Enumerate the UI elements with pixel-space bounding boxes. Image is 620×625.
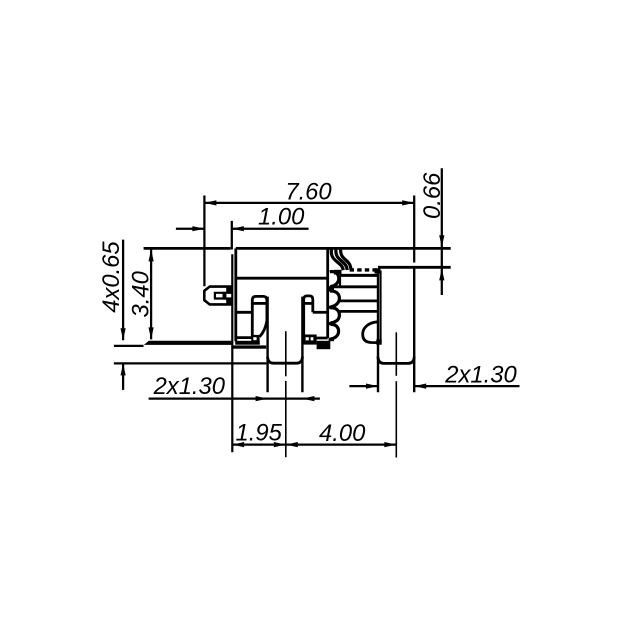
shield bend wavy curls — [331, 250, 351, 271]
dash-leg junction fill — [375, 268, 381, 273]
dim 1.00 line + tail — [232, 228, 309, 230]
dim 1.95 / 4.00 shared line — [232, 443, 396, 445]
latch black top-right — [226, 287, 232, 293]
dimension texts — [98, 172, 518, 447]
svg-text:1.95: 1.95 — [236, 419, 283, 446]
arrowheads — [121, 200, 445, 447]
right contact post cap — [304, 296, 313, 335]
4x0.65 upper arrow (down) — [121, 328, 126, 340]
body interior horizontal line left — [236, 311, 253, 314]
metal section line y301 — [338, 299, 378, 302]
extension line top-left (3.40 upper ref) — [144, 247, 231, 250]
left contact post cap — [252, 296, 267, 336]
right lead bottom line — [378, 266, 451, 269]
dim 4x0.65 extension upper — [114, 345, 144, 347]
metal section line y311 — [338, 310, 378, 313]
1.00 right arrow — [232, 226, 244, 231]
right contact post cap underline — [304, 302, 313, 305]
right contact crimp block — [303, 335, 317, 345]
right hold-down leg inner double line — [380, 271, 382, 343]
svg-text:2x1.30: 2x1.30 — [153, 373, 226, 400]
2x1.30 BR right arrow (left-pointing) — [414, 384, 426, 389]
svg-text:0.66: 0.66 — [419, 172, 446, 219]
dim 1.00 left out-arrow tail — [176, 228, 205, 230]
left contact crimp block — [251, 335, 259, 341]
dim 4x0.65 extension lower / pcb line — [114, 362, 267, 364]
7.60 left arrow — [204, 200, 216, 205]
metal teardrop 4 — [330, 324, 338, 338]
body interior horizontal line upper — [236, 277, 328, 280]
body bottom-left line — [236, 336, 252, 339]
central slot right wall / left leg right edge — [301, 297, 303, 393]
1.00 left out-arrow — [192, 226, 204, 231]
left latch outer outline — [204, 287, 232, 305]
left foot upper bar — [235, 341, 260, 345]
4.00 right arrow — [384, 442, 396, 447]
dash junction fill — [334, 270, 342, 275]
right hold-down leg bottom — [378, 357, 414, 364]
left contact post diagonal — [260, 321, 267, 337]
4x0.65 lower arrow (up) — [121, 363, 126, 375]
body left edge — [234, 248, 237, 341]
latch black bar — [223, 292, 227, 300]
right crimp white dot 1 — [306, 337, 309, 340]
body interior bottom right rect line — [303, 337, 328, 340]
left foot lower bar — [232, 345, 267, 348]
metal teardrop 1 — [330, 272, 339, 287]
body top edge line — [236, 247, 451, 250]
3.40 bottom arrow (down) — [149, 327, 154, 339]
dim 4x0.65 line upper — [122, 240, 124, 341]
svg-text:4.00: 4.00 — [319, 420, 366, 447]
latch black bottom-right — [226, 298, 232, 305]
7.60 right arrow — [402, 200, 414, 205]
left latch inner slot — [215, 293, 232, 299]
hook foot blob — [376, 339, 381, 344]
dim 7.60 extension left — [203, 196, 205, 287]
dim 2x1.30 right line left seg — [349, 385, 378, 387]
svg-text:7.60: 7.60 — [285, 179, 332, 206]
3.40 top arrow (up) — [149, 249, 154, 261]
metal section rect left edge — [339, 275, 341, 286]
svg-text:3.40: 3.40 — [128, 270, 155, 317]
metal teardrop 2 — [330, 291, 339, 307]
dim 7.60 line — [204, 202, 414, 204]
svg-text:4x0.65: 4x0.65 — [98, 241, 125, 313]
right hold-down leg left edge — [377, 269, 379, 393]
left SMT lead (thick) — [144, 341, 232, 345]
dim 4x0.65 line lower — [122, 363, 124, 390]
right lead hook shape — [363, 322, 378, 343]
dim 7.60 extension right — [413, 196, 415, 263]
2x1.30 BL right arrow (left-pointing) — [302, 396, 314, 401]
0.66 upper arrow (down) — [439, 235, 444, 247]
metal section line y275 — [340, 274, 378, 277]
dim 2x1.30 right line right seg — [414, 385, 519, 387]
centerline right leg — [395, 332, 397, 376]
dim 2x1.30 bottom-left line — [149, 397, 320, 399]
dim 0.66 line — [441, 168, 443, 295]
dim 1.00 extension right — [231, 221, 233, 250]
central slot left wall / left leg left edge — [266, 297, 268, 393]
body interior vertical right — [326, 248, 329, 338]
body interior horizontal line right — [313, 311, 328, 314]
1.95 left arrow — [232, 442, 244, 447]
right crimp white dot 2 — [311, 337, 314, 340]
right foot lower bar — [317, 341, 331, 349]
2x1.30 BR left arrow (right-pointing) — [366, 384, 378, 389]
metal section line y287 — [334, 285, 378, 288]
metal teardrop 3 — [330, 308, 339, 323]
svg-text:1.00: 1.00 — [258, 204, 305, 231]
left crimp white dot — [253, 337, 256, 340]
left leg bottom — [268, 357, 303, 364]
right hold-down leg right edge lower — [413, 267, 415, 392]
2x1.30 BL left arrow (right-pointing) — [256, 396, 268, 401]
spring contact dashed line — [350, 268, 378, 271]
dim 3.40 line — [150, 249, 152, 339]
centerline left leg — [286, 331, 397, 457]
left contact post cap underline — [252, 302, 267, 305]
0.66 lower arrow (up) — [439, 268, 444, 280]
4.00 left arrow — [286, 442, 298, 447]
svg-text:2x1.30: 2x1.30 — [444, 362, 517, 389]
1.95 right arrow — [274, 442, 286, 447]
body left inner edge / 1.95 extension — [231, 254, 233, 452]
teardrop tips — [329, 286, 334, 341]
